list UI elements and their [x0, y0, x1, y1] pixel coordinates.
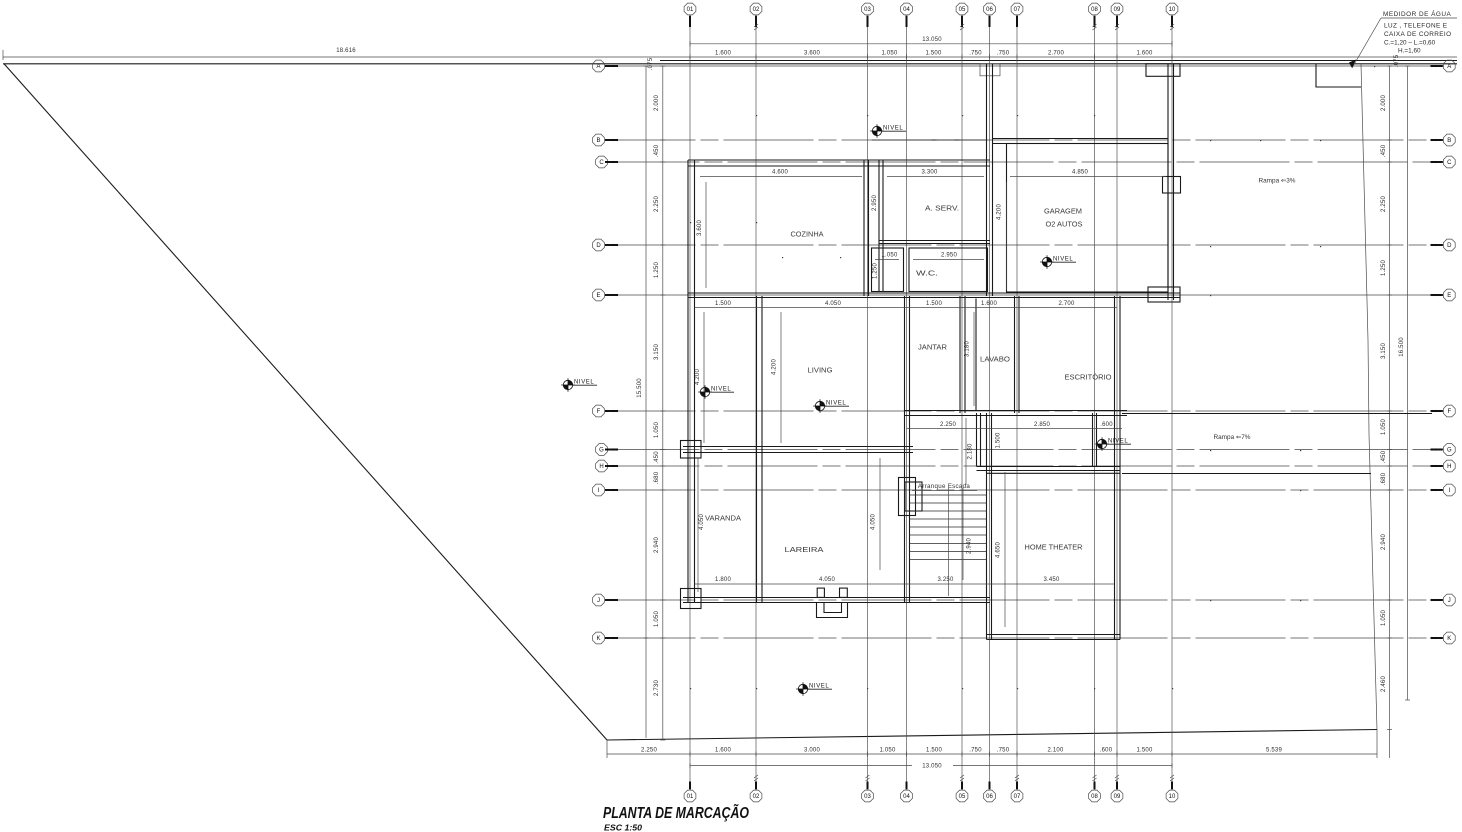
svg-text:MEDIDOR DE ÁGUA: MEDIDOR DE ÁGUA — [1383, 9, 1451, 18]
bubble 05 bottom — [956, 790, 968, 802]
svg-text:01: 01 — [687, 794, 694, 800]
svg-text:F: F — [1447, 409, 1451, 415]
dimension varanda 4.050 vertical — [698, 458, 705, 592]
svg-text:3.600: 3.600 — [804, 51, 820, 57]
grid column 08 — [1094, 19, 1096, 788]
svg-text:2.250: 2.250 — [654, 196, 660, 212]
svg-text:1.250: 1.250 — [1381, 260, 1387, 276]
wall row E — [688, 293, 1180, 298]
nivel marker right cell — [1095, 437, 1131, 451]
svg-text:B: B — [1447, 138, 1451, 144]
grid row D — [606, 244, 1441, 246]
bubble I left — [593, 484, 605, 496]
dimension wc row 1.050 / 2.950 — [875, 253, 984, 260]
svg-text:1.500: 1.500 — [926, 301, 942, 307]
wall col03 kitchen east — [864, 160, 869, 296]
svg-text:K: K — [596, 636, 600, 642]
wall aserv south — [879, 241, 990, 244]
svg-text:LUZ , TELEFONE E: LUZ , TELEFONE E — [1384, 23, 1447, 30]
svg-text:2.100: 2.100 — [1047, 748, 1063, 754]
bubble G left — [596, 444, 608, 456]
dimension 13.050 top — [690, 37, 1172, 44]
svg-text:4.850: 4.850 — [1072, 170, 1088, 176]
wall col04 — [905, 296, 910, 603]
wall col02 — [757, 296, 763, 603]
svg-text:07: 07 — [1014, 794, 1021, 800]
svg-text:.680: .680 — [654, 471, 660, 484]
small cell box left of wc — [872, 248, 904, 292]
svg-text:1.600: 1.600 — [1136, 51, 1152, 57]
svg-text:10: 10 — [1169, 7, 1176, 13]
svg-text:H: H — [1447, 464, 1451, 470]
column box 01-G — [681, 441, 702, 459]
site boundary bottom — [607, 730, 1377, 741]
svg-text:.075: .075 — [648, 57, 654, 70]
svg-text:2.730: 2.730 — [654, 680, 660, 696]
bubble 02 top — [750, 3, 762, 15]
svg-text:G: G — [1447, 448, 1452, 454]
nivel marker bottom strip — [796, 682, 832, 696]
ticks on left dimension column — [644, 66, 666, 740]
wc room box — [909, 248, 988, 292]
svg-text:13.050: 13.050 — [922, 37, 942, 43]
dimension home theater 4.650 vertical — [996, 472, 1006, 627]
svg-text:2.250: 2.250 — [1381, 196, 1387, 212]
bubble 09 bottom — [1111, 790, 1123, 802]
bubble 04 bottom — [901, 790, 913, 802]
break marks on top column stems — [754, 24, 1174, 30]
svg-text:3.180: 3.180 — [965, 341, 971, 357]
svg-text:09: 09 — [1114, 7, 1121, 13]
dimension aserv 3.300 — [887, 170, 984, 177]
lavabo west inner face — [975, 299, 977, 411]
grid column 07 — [1016, 19, 1018, 788]
svg-text:Rampa ⇐7%: Rampa ⇐7% — [1214, 434, 1251, 441]
grid row H — [610, 465, 1441, 467]
entry box on boundary near column 06 — [980, 64, 1000, 76]
svg-text:JANTAR: JANTAR — [918, 345, 947, 352]
svg-text:.600: .600 — [1100, 748, 1113, 754]
svg-text:1.800: 1.800 — [715, 577, 731, 583]
svg-text:VARANDA: VARANDA — [705, 516, 741, 523]
svg-text:1.600: 1.600 — [715, 51, 731, 57]
svg-text:01: 01 — [687, 7, 694, 13]
bubble 08 bottom — [1089, 790, 1101, 802]
svg-text:1.600: 1.600 — [981, 301, 997, 307]
dimension lareira 4.050 vertical — [871, 458, 881, 570]
wall east col09 — [1115, 296, 1121, 640]
bubble K right — [1443, 632, 1455, 644]
svg-text:C.=1,20 – L.=0,60: C.=1,20 – L.=0,60 — [1384, 40, 1436, 47]
svg-text:1.050: 1.050 — [654, 422, 660, 438]
break marks on bottom column stems — [754, 775, 1174, 781]
bubble B left — [593, 134, 605, 146]
svg-text:08: 08 — [1091, 794, 1098, 800]
svg-text:.750: .750 — [969, 51, 982, 57]
grid column 02 — [755, 19, 757, 788]
svg-text:15.500: 15.500 — [637, 378, 643, 398]
bubble 01 bottom — [684, 790, 696, 802]
dimension jantar 3.180 vertical — [965, 312, 975, 406]
svg-text:07: 07 — [1014, 7, 1021, 13]
svg-text:.450: .450 — [1381, 144, 1387, 157]
wall row G — [683, 447, 913, 453]
dimension 18.616 top — [3, 48, 1457, 60]
grid row F — [606, 410, 1441, 412]
dimension row under F — [907, 422, 1123, 429]
grid column 10 — [1171, 19, 1173, 788]
svg-text:Arranque Escada: Arranque Escada — [918, 483, 971, 490]
svg-text:2.180: 2.180 — [968, 443, 974, 459]
wall home theater west col06 — [987, 413, 992, 640]
svg-text:GARAGEM: GARAGEM — [1044, 209, 1082, 216]
svg-text:1.250: 1.250 — [873, 263, 879, 279]
bubble J right — [1443, 594, 1455, 606]
home theater north inner face — [987, 472, 1120, 474]
svg-text:2.000: 2.000 — [654, 95, 660, 111]
bubble 08 top — [1089, 3, 1101, 15]
svg-text:08: 08 — [1091, 7, 1098, 13]
bubble G right — [1443, 444, 1455, 456]
svg-text:2.460: 2.460 — [1381, 676, 1387, 692]
bubble 04 top — [901, 3, 913, 15]
svg-text:3.150: 3.150 — [1381, 343, 1387, 359]
grid row A — [606, 65, 1441, 67]
wall west col01 — [688, 160, 695, 603]
svg-text:5.539: 5.539 — [1266, 748, 1282, 754]
bubble K left — [593, 632, 605, 644]
svg-text:18.616: 18.616 — [336, 48, 356, 54]
svg-text:3.450: 3.450 — [1043, 577, 1059, 583]
svg-text:LIVING: LIVING — [808, 368, 833, 375]
svg-text:H: H — [599, 464, 603, 470]
column box garage east mid — [1163, 177, 1181, 194]
svg-text:1.250: 1.250 — [654, 262, 660, 278]
svg-text:4.200: 4.200 — [695, 369, 701, 385]
bubble I right — [1443, 484, 1455, 496]
site boundary right slanted — [1361, 64, 1377, 730]
grid row E — [606, 294, 1441, 296]
svg-text:J: J — [1448, 598, 1451, 604]
svg-text:06: 06 — [986, 794, 993, 800]
svg-text:LAREIRA: LAREIRA — [785, 547, 824, 554]
site boundary top — [3, 61, 1457, 64]
svg-text:4.050: 4.050 — [819, 577, 835, 583]
svg-text:.750: .750 — [997, 51, 1010, 57]
svg-text:1.050: 1.050 — [1381, 610, 1387, 626]
grid row C — [610, 161, 1441, 163]
svg-text:G: G — [599, 448, 604, 454]
wall col07 — [1015, 296, 1020, 413]
svg-text:1.600: 1.600 — [715, 748, 731, 754]
svg-text:PLANTA DE MARCAÇÃO: PLANTA DE MARCAÇÃO — [603, 804, 749, 822]
svg-text:4.650: 4.650 — [996, 542, 1002, 558]
svg-text:4.600: 4.600 — [772, 170, 788, 176]
grid row I — [606, 489, 1441, 491]
wall col05 — [960, 296, 965, 413]
svg-text:1.050: 1.050 — [881, 51, 897, 57]
svg-text:HOME THEATER: HOME THEATER — [1025, 545, 1083, 552]
bubble 02 bottom — [750, 790, 762, 802]
svg-text:.450: .450 — [654, 451, 660, 464]
svg-text:02: 02 — [753, 7, 760, 13]
svg-text:2.940: 2.940 — [654, 537, 660, 553]
svg-text:A: A — [596, 64, 600, 70]
bubble 05 top — [956, 3, 968, 15]
svg-text:C: C — [1447, 160, 1452, 166]
svg-text:B: B — [596, 138, 600, 144]
nivel marker varanda top — [698, 385, 734, 399]
bubble 10 top — [1166, 3, 1178, 15]
svg-text:2.250: 2.250 — [641, 748, 657, 754]
dimension terrace 4.200 vertical — [695, 312, 704, 443]
column box stair newel — [899, 478, 923, 516]
svg-text:W.C.: W.C. — [916, 271, 938, 278]
svg-text:.075: .075 — [1394, 54, 1400, 67]
bubble F right — [1443, 405, 1455, 417]
dimension row above J — [695, 577, 1115, 584]
ramp top edge along row F — [1122, 413, 1432, 415]
svg-text:E: E — [596, 293, 600, 299]
svg-text:05: 05 — [959, 794, 966, 800]
bubble 03 top — [862, 3, 874, 15]
leader arrow to meter box — [1349, 18, 1381, 68]
bubble D right — [1443, 239, 1455, 251]
grid column 09 — [1116, 19, 1118, 788]
svg-text:16.500: 16.500 — [1399, 337, 1405, 357]
svg-text:O2 AUTOS: O2 AUTOS — [1046, 222, 1083, 229]
svg-text:06: 06 — [986, 7, 993, 13]
svg-text:10: 10 — [1169, 794, 1176, 800]
bubble A right — [1443, 60, 1455, 72]
wall home theater south row K — [987, 635, 1121, 640]
grid column 06 — [989, 19, 991, 788]
bubble J left — [593, 594, 605, 606]
svg-text:1.500: 1.500 — [1136, 748, 1152, 754]
svg-text:D: D — [596, 243, 601, 249]
svg-text:F: F — [597, 409, 601, 415]
garage slab rect — [1007, 144, 1169, 293]
svg-text:4.050: 4.050 — [871, 514, 877, 530]
column box garage east bottom — [1148, 287, 1180, 302]
svg-text:C: C — [599, 160, 604, 166]
svg-text:2.700: 2.700 — [1048, 51, 1064, 57]
site boundary diagonal — [4, 64, 607, 740]
ticks on right dimension column — [1387, 66, 1410, 730]
svg-text:09: 09 — [1114, 794, 1121, 800]
dimension 2.180 vertical — [966, 418, 974, 485]
front porch edge line — [872, 139, 987, 141]
bubble stub dots — [612, 65, 1436, 639]
svg-text:4.200: 4.200 — [772, 359, 778, 375]
grid row B — [606, 139, 1441, 141]
svg-text:.450: .450 — [1381, 450, 1387, 463]
svg-text:ESC 1:50: ESC 1:50 — [604, 824, 643, 832]
bottom dimension line — [607, 730, 1377, 759]
svg-text:2.950: 2.950 — [941, 253, 957, 259]
svg-text:D: D — [1447, 243, 1452, 249]
left dimension line with row ticks — [648, 57, 663, 740]
svg-text:2.950: 2.950 — [872, 195, 878, 211]
svg-text:1.500: 1.500 — [925, 51, 941, 57]
svg-text:.600: .600 — [1100, 422, 1113, 428]
svg-text:E: E — [1447, 293, 1451, 299]
svg-text:K: K — [1447, 636, 1451, 642]
svg-text:03: 03 — [864, 7, 871, 13]
stair rails vertical — [949, 488, 964, 596]
ramp bottom edge — [1122, 473, 1371, 475]
wall garage north interior — [993, 139, 1169, 144]
svg-text:13.050: 13.050 — [922, 764, 942, 770]
dimension garage 4.850 — [1010, 170, 1166, 177]
bubble 01 top — [684, 3, 696, 15]
svg-text:COZINHA: COZINHA — [791, 232, 824, 239]
bubble 07 bottom — [1011, 790, 1023, 802]
bubble E right — [1443, 289, 1455, 301]
bubble H left — [596, 460, 608, 472]
nivel marker garage — [1040, 255, 1076, 269]
svg-text:1.500: 1.500 — [715, 301, 731, 307]
dimension row under E — [695, 301, 1118, 308]
grid row G — [610, 449, 1441, 451]
left overall dimension 15.500 — [637, 66, 646, 738]
svg-text:Rampa ⇐3%: Rampa ⇐3% — [1259, 178, 1296, 185]
svg-text:04: 04 — [903, 7, 910, 13]
svg-text:1.050: 1.050 — [1381, 419, 1387, 435]
dimension kitchen 3.600 vertical — [697, 182, 706, 288]
grid row K — [606, 637, 1441, 639]
note medidor de agua — [1381, 9, 1457, 55]
stair treads — [910, 495, 988, 560]
wall row J — [683, 598, 990, 603]
svg-text:.450: .450 — [654, 144, 660, 157]
svg-text:1.050: 1.050 — [881, 253, 897, 259]
svg-text:3.150: 3.150 — [654, 344, 660, 360]
svg-text:CAIXA DE CORREIO: CAIXA DE CORREIO — [1384, 31, 1451, 38]
wall garage west col06 — [987, 64, 993, 296]
bubble connector stubs — [605, 16, 1443, 790]
wall aserv west — [879, 160, 883, 292]
nivel marker front terrace — [870, 124, 906, 138]
grid column 04 — [906, 19, 908, 788]
svg-text:A: A — [1447, 64, 1451, 70]
grid column 05 — [961, 19, 963, 788]
svg-text:2.000: 2.000 — [1381, 95, 1387, 111]
nivel marker left of plan — [561, 378, 597, 392]
svg-text:03: 03 — [864, 794, 871, 800]
svg-text:J: J — [597, 598, 600, 604]
bubble D left — [593, 239, 605, 251]
svg-text:A. SERV.: A. SERV. — [925, 206, 959, 213]
bubble 06 bottom — [984, 790, 996, 802]
bubble E left — [593, 289, 605, 301]
bubble 07 top — [1011, 3, 1023, 15]
bubble 03 bottom — [862, 790, 874, 802]
stair label Arranque Escada — [912, 483, 977, 491]
right overall dimension 16.500 — [1399, 66, 1408, 700]
svg-text:2.700: 2.700 — [1058, 301, 1074, 307]
grid column 01 — [689, 19, 691, 788]
bubble B right — [1443, 134, 1455, 146]
bubble C left — [596, 156, 608, 168]
column box 01-J — [681, 589, 702, 609]
wall row F — [905, 411, 1128, 416]
svg-text:1.050: 1.050 — [879, 748, 895, 754]
svg-text:.680: .680 — [1381, 472, 1387, 485]
bubble 10 bottom — [1166, 790, 1178, 802]
wall north row C — [688, 160, 990, 166]
dimension kitchen 4.600 — [700, 170, 862, 177]
svg-text:4.050: 4.050 — [825, 301, 841, 307]
svg-text:3.000: 3.000 — [804, 748, 820, 754]
wall garage east col10 — [1168, 64, 1174, 300]
svg-text:3.600: 3.600 — [697, 220, 703, 236]
svg-text:05: 05 — [959, 7, 966, 13]
ticks on top dimension line — [690, 41, 1172, 60]
svg-text:.750: .750 — [997, 748, 1010, 754]
svg-text:02: 02 — [753, 794, 760, 800]
dimension 13.050 bottom — [690, 764, 1172, 770]
corner column box top right — [1146, 64, 1180, 77]
grid row J — [606, 599, 1441, 601]
bubble 06 top — [984, 3, 996, 15]
dimension living 4.200 vertical — [772, 312, 782, 443]
svg-text:3.300: 3.300 — [921, 170, 937, 176]
svg-text:LAVABO: LAVABO — [980, 357, 1011, 364]
svg-text:1.050: 1.050 — [654, 611, 660, 627]
svg-text:ESCRITÓRIO: ESCRITÓRIO — [1065, 373, 1113, 382]
svg-text:4.200: 4.200 — [997, 204, 1003, 220]
bubble C right — [1443, 156, 1455, 168]
svg-text:.750: .750 — [969, 748, 982, 754]
fireplace below row J — [817, 588, 848, 617]
svg-text:2.250: 2.250 — [940, 422, 956, 428]
svg-text:1.500: 1.500 — [996, 432, 1002, 448]
grid column 03 — [867, 19, 869, 788]
wall corridor — [977, 413, 981, 467]
bubble H right — [1443, 460, 1455, 472]
svg-text:H.=1,60: H.=1,60 — [1398, 48, 1421, 55]
wall col08 closet — [1093, 413, 1097, 467]
dimension garage 4.200 vertical — [997, 182, 1007, 290]
svg-text:3.250: 3.250 — [937, 577, 953, 583]
svg-text:2.850: 2.850 — [1034, 422, 1050, 428]
bubble A left — [593, 60, 605, 72]
nivel marker living — [813, 399, 849, 413]
ticks on bottom dimension lines — [690, 752, 1172, 769]
top dimension texts row — [715, 51, 1153, 57]
right dimension line with row ticks — [1381, 54, 1400, 758]
svg-text:2.940: 2.940 — [1381, 534, 1387, 550]
svg-text:1.500: 1.500 — [926, 748, 942, 754]
meter box top right — [1316, 64, 1361, 87]
svg-text:04: 04 — [903, 794, 910, 800]
wall row H home theater north — [977, 467, 1121, 471]
grid intersection dots — [690, 66, 1375, 689]
bubble 09 top — [1111, 3, 1123, 15]
bubble F left — [593, 405, 605, 417]
